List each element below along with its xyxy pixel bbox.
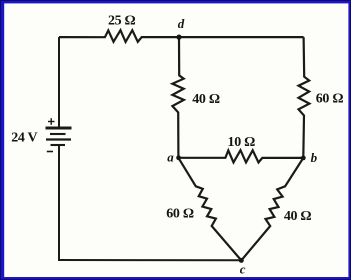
battery plate long 3 xyxy=(46,138,71,140)
svg-text:c: c xyxy=(240,262,246,277)
svg-text:25 Ω: 25 Ω xyxy=(108,14,136,29)
svg-text:24 V: 24 V xyxy=(11,130,37,145)
svg-text:b: b xyxy=(311,150,318,165)
wire bottom (to node c) xyxy=(58,259,241,261)
battery plate short 2 xyxy=(50,133,66,135)
resistor R6 40 ohm (diagonal b to c with zigzag) xyxy=(241,158,303,261)
svg-text:60 Ω: 60 Ω xyxy=(166,206,194,221)
svg-text:d: d xyxy=(178,16,185,31)
svg-text:40 Ω: 40 Ω xyxy=(284,209,312,224)
battery minus sign xyxy=(47,151,53,153)
resistor R1 25 ohm (top wire with zigzag) xyxy=(59,30,304,42)
wire left vertical top (battery + to top wire) xyxy=(58,37,60,128)
resistor R5 60 ohm (diagonal a to c with zigzag) xyxy=(178,158,241,261)
svg-text:40 Ω: 40 Ω xyxy=(192,92,220,107)
wire left vertical bottom (battery - to bottom wire) xyxy=(58,145,59,261)
battery V1 24V plate long top xyxy=(46,127,72,130)
resistor R3 60 ohm (right vertical with zigzag) xyxy=(299,37,310,158)
battery plate short 4 xyxy=(51,144,66,146)
svg-text:10 Ω: 10 Ω xyxy=(228,135,256,150)
node d (junction dot) xyxy=(176,35,181,40)
svg-text:60 Ω: 60 Ω xyxy=(316,91,344,106)
node c (junction dot) xyxy=(239,258,244,263)
resistor R2 40 ohm (vertical d to a with zigzag) xyxy=(172,37,184,157)
resistor R4 10 ohm (horizontal a to b with zigzag) xyxy=(178,150,303,162)
battery plus sign xyxy=(48,118,55,125)
node a (junction dot) xyxy=(176,155,181,160)
node b (junction dot) xyxy=(301,156,306,161)
svg-text:a: a xyxy=(167,150,174,165)
